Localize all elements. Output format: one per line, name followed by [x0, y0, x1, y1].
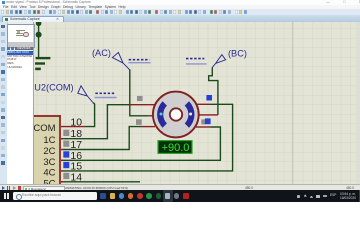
node U2(COM): pointer triangle — [78, 86, 93, 103]
motor M1: right coil dot — [189, 113, 192, 116]
wire: motor pin stub left-mid (red) — [149, 115, 153, 117]
svg-text:+90.0: +90.0 — [162, 142, 190, 154]
node: junction dot 2 — [36, 32, 42, 38]
svg-text:U2(COM): U2(COM) — [34, 83, 73, 93]
svg-text:10: 10 — [70, 116, 82, 128]
motor M1: right stator coil (blue arc) — [185, 101, 195, 127]
motor M1: stepper motor body — [153, 92, 199, 138]
wire: U2(COM) net down to pin 10 — [85, 103, 95, 127]
wire: vertical rail top-left — [38, 22, 40, 58]
IC U2: pin 18 (1C) — [43, 128, 82, 146]
node: junction dot 1 — [36, 21, 42, 27]
IC U2: pin 14 (5C) — [43, 171, 82, 189]
svg-text:14: 14 — [70, 171, 82, 183]
wire: pin 10 stub (red) — [61, 126, 85, 128]
node: logic probe square grey (left of motor, bottom) — [136, 119, 142, 125]
svg-text:4C: 4C — [43, 167, 55, 178]
node: logic probe square blue (right of motor, bottom) — [205, 118, 211, 124]
svg-text:1C: 1C — [43, 135, 55, 146]
node U2(COM): dashed terminal marks — [95, 92, 115, 94]
wire: motor pin stub left-bottom (red) — [141, 126, 155, 128]
node: logic probe square grey sliver (right of motor, bottom) — [201, 119, 205, 124]
node: logic probe square blue (right of motor, top) — [206, 95, 212, 101]
IC U2: pin 15 (4C) — [43, 160, 82, 178]
node: logic probe square grey (left of motor, top) — [137, 96, 143, 101]
svg-text:2C: 2C — [43, 146, 55, 157]
wire: pin 18 to AC net — [63, 105, 130, 139]
IC U2: pin 17 (2C) — [43, 139, 82, 157]
wire: motor pin stub right-top (red) — [197, 103, 209, 105]
IC U2: pin 16 (3C) — [43, 150, 82, 168]
wire: motor pin stub right-bottom (red) — [196, 126, 210, 128]
wire: motor pin stub left-top (red) — [130, 104, 155, 106]
wire: left-bottom pin to pin 17 — [63, 127, 141, 150]
svg-text:(AC): (AC) — [92, 48, 111, 58]
node BC: dashed terminal marks — [186, 58, 204, 60]
svg-text:(BC): (BC) — [228, 49, 247, 59]
node BC: pointer triangle — [212, 55, 225, 68]
IC U2: ULN2003 body — [18, 115, 61, 184]
svg-text:COM: COM — [33, 123, 55, 134]
ground — [35, 57, 50, 70]
display: motor angle readout +90.0 — [158, 141, 192, 154]
wire: BC net down to motor right-mid pin — [209, 67, 218, 115]
wire: motor pin stub right-mid (red) — [199, 114, 218, 116]
node AC: pointer triangle — [112, 53, 129, 70]
motor M1: left stator coil (blue arc) — [157, 101, 167, 127]
wire: AC net down to motor — [129, 69, 149, 115]
wire: pin 14 — [63, 181, 140, 183]
wire: right-bottom pin to pin 16 — [63, 127, 220, 160]
motor M1: rotor shaft — [170, 108, 182, 120]
wire: right-top pin to pin 15 — [63, 104, 232, 171]
motor M1: left coil dot — [160, 113, 163, 116]
svg-text:3C: 3C — [43, 157, 55, 168]
node AC: dashed terminal marks — [129, 59, 150, 61]
